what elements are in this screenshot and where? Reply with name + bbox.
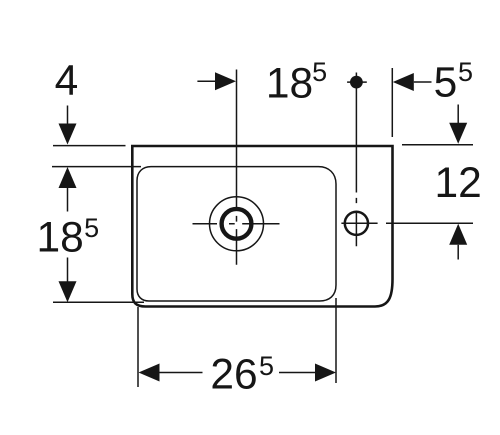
svg-text:12: 12 xyxy=(435,160,482,207)
dim 26.5: extension line right xyxy=(335,298,337,383)
tap dot horizontal tick xyxy=(347,81,367,83)
dim 12: extension line bottom xyxy=(386,222,473,224)
dim 26.5: left shaft xyxy=(160,372,203,374)
dim 26.5: right arrowhead xyxy=(315,364,336,382)
drain ring xyxy=(222,209,252,239)
svg-text:26: 26 xyxy=(210,351,257,398)
dim 18.5 top: right arrowhead xyxy=(215,72,236,90)
dim 18.5 left: extension line bottom xyxy=(53,301,144,303)
svg-text:4: 4 xyxy=(55,58,79,105)
drain centerline vertical xyxy=(236,70,238,265)
dim 5.5: extension line xyxy=(391,68,393,137)
dim 26.5: extension line left xyxy=(137,307,139,387)
dim 12: extension line top xyxy=(402,144,473,146)
dim 4: extension line bottom xyxy=(52,166,141,168)
tap hole circle xyxy=(345,212,368,235)
dim 18.5 left: down arrowhead xyxy=(59,281,77,302)
tap reference dot xyxy=(350,76,363,89)
basin inner bowl xyxy=(137,167,336,301)
svg-text:5: 5 xyxy=(458,57,473,87)
dim 4: extension line top xyxy=(53,145,126,147)
svg-text:18: 18 xyxy=(266,61,313,108)
dim 18.5 left: up arrowhead xyxy=(59,167,77,188)
dim 18.5 left: shaft lower xyxy=(67,258,69,283)
svg-text:5: 5 xyxy=(259,351,274,381)
dim 4: arrow shaft xyxy=(67,106,69,125)
dim 5.5: arrow shaft xyxy=(414,81,432,83)
dim 18.5 left: shaft upper xyxy=(67,187,69,212)
dim 26.5: left arrowhead xyxy=(139,364,160,382)
dim 18.5 top: arrow shaft xyxy=(197,80,216,82)
dim 12: upper shaft xyxy=(457,105,459,124)
drain centerline horizontal xyxy=(193,223,280,225)
dim 12: down arrowhead xyxy=(449,123,467,144)
svg-text:5: 5 xyxy=(84,213,99,243)
dim 26.5: right shaft xyxy=(279,372,316,374)
tap hole centerline horizontal xyxy=(341,222,377,224)
basin outer outline xyxy=(132,146,392,307)
dim 12: up arrowhead xyxy=(449,224,467,245)
tap hole centerline vertical xyxy=(355,73,357,247)
drain outer circle xyxy=(210,197,264,251)
dim 12: lower shaft xyxy=(457,245,459,260)
svg-text:5: 5 xyxy=(434,59,458,106)
dim 4: down arrowhead xyxy=(59,124,77,145)
svg-text:18: 18 xyxy=(36,215,83,262)
dim 5.5: left arrowhead xyxy=(393,73,414,91)
svg-text:5: 5 xyxy=(312,57,327,87)
